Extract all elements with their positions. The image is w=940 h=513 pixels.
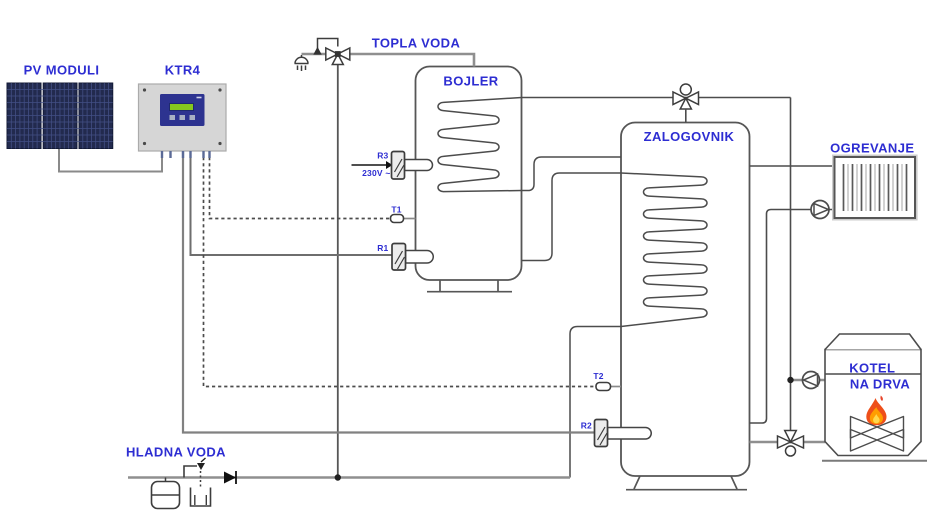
controller KTR4 box	[139, 84, 227, 151]
sensor bulb on outlet	[313, 47, 321, 55]
KTR4 LCD	[170, 104, 194, 111]
valve loading 3-way at kotel	[778, 431, 804, 457]
tank BOJLER legs	[427, 280, 512, 292]
wire R1 from KTR4	[191, 151, 393, 255]
svg-text:R1: R1	[377, 243, 388, 253]
KOTEL divider	[825, 373, 921, 375]
heater R2 flange	[595, 420, 608, 447]
svg-text:ZALOGOVNIK: ZALOGOVNIK	[644, 129, 735, 144]
sensor loop of mixing valve	[318, 39, 338, 53]
PV panel modules	[7, 83, 113, 149]
node kotel junction	[787, 377, 793, 383]
svg-text:KOTEL: KOTEL	[849, 361, 895, 376]
tank ZALOGOVNIK outline	[621, 123, 750, 477]
radiator OGREVANJE	[835, 157, 916, 218]
KTR4 screws	[143, 88, 222, 145]
KTR4 display panel	[160, 94, 205, 126]
svg-text:PV MODULI: PV MODULI	[24, 63, 100, 78]
pipe kotel pump line	[791, 379, 826, 382]
svg-text:T1: T1	[391, 205, 401, 215]
heater R3 stub	[405, 160, 433, 171]
wire T2 sensor (dashed)	[204, 151, 597, 387]
coil in ZALOGOVNIK with cold water feed riser	[522, 173, 708, 478]
check valve on cold line	[235, 471, 237, 484]
KOTEL base	[822, 460, 927, 462]
tundish	[191, 488, 211, 507]
svg-text:BOJLER: BOJLER	[443, 73, 498, 88]
wire valve to zalogovnik top	[685, 109, 687, 123]
valve motorised 3-way on zalogovnik top	[673, 84, 699, 109]
wire T1 sensor (dashed)	[210, 151, 391, 219]
sensor T1	[404, 218, 416, 220]
KTR4 buttons	[170, 115, 196, 120]
pipe radiator supply	[750, 165, 835, 167]
wire PV to KTR4	[59, 149, 162, 172]
pipe kotel supply riser (from valve line down to loading valve)	[790, 98, 792, 431]
logs (crossed)	[851, 417, 904, 452]
heater R1 stub	[406, 251, 434, 264]
svg-text:HLADNA VODA: HLADNA VODA	[126, 445, 226, 460]
heater R1 flange	[392, 244, 406, 271]
pipe mixing valve cold feed	[337, 58, 339, 478]
pipe kotel loading circuit	[750, 441, 826, 444]
coil in BOJLER with supply line from kotel riser and link to zalogovnik upper port	[438, 98, 791, 192]
wire 230V to R3	[352, 164, 387, 166]
radiator OGREVANJE halo	[833, 155, 917, 219]
pipe TOPLA VODA	[302, 54, 475, 67]
wire R2 from KTR4	[183, 151, 595, 433]
valve thermostatic mixing (3-way)	[326, 48, 350, 65]
arrow 230V	[386, 161, 393, 169]
pump kotel circuit	[803, 372, 820, 389]
KTR4 terminal stubs	[162, 151, 210, 158]
heater R2 stub	[608, 428, 652, 440]
pump radiator circuit	[811, 201, 829, 219]
node cold feed junction	[335, 474, 341, 480]
svg-text:R3: R3	[377, 151, 388, 161]
svg-text:NA DRVA: NA DRVA	[850, 376, 911, 391]
heater R3 flange	[392, 152, 405, 180]
sensor T2	[611, 386, 622, 388]
pipe radiator return	[750, 210, 835, 424]
pipe HLADNA VODA	[128, 476, 570, 479]
boiler KOTEL NA DRVA body	[825, 350, 921, 456]
svg-text:TOPLA VODA: TOPLA VODA	[372, 36, 461, 51]
KOTEL roof	[825, 334, 921, 350]
svg-text:T2: T2	[593, 371, 603, 381]
svg-text:230V ~: 230V ~	[362, 168, 390, 178]
svg-text:R2: R2	[581, 421, 592, 431]
tank ZALOGOVNIK legs	[626, 476, 747, 490]
flame	[866, 398, 886, 425]
expansion vessel	[165, 478, 167, 482]
radiator fins	[848, 164, 902, 211]
svg-text:OGREVANJE: OGREVANJE	[830, 141, 914, 156]
svg-text:KTR4: KTR4	[165, 63, 201, 78]
outlet tap symbol	[301, 55, 303, 58]
safety valve group	[184, 466, 197, 478]
tank BOJLER outline	[416, 67, 522, 281]
